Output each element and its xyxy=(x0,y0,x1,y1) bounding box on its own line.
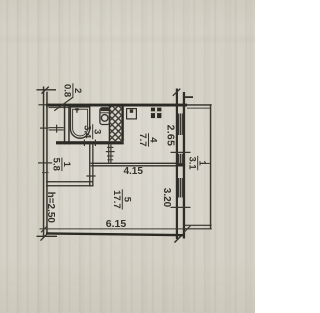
leader line for room 2 label xyxy=(54,97,73,110)
wall: bathroom south xyxy=(56,141,124,144)
svg-text:3.4: 3.4 xyxy=(81,125,92,139)
small tick on left wall lower xyxy=(42,172,49,174)
bottom-left corner tick xyxy=(37,233,58,241)
balcony bottom rails xyxy=(185,225,212,230)
balcony top edge xyxy=(187,104,212,109)
svg-text:7.7: 7.7 xyxy=(137,133,148,146)
kitchen sink xyxy=(127,109,137,119)
wall: hallway east (double line) xyxy=(89,144,93,187)
tick on left wall at closet bottom xyxy=(40,127,49,129)
balcony right edge xyxy=(210,104,212,229)
window hatch A (kitchen window) xyxy=(178,114,183,136)
wall: right exterior (double line with window openings) xyxy=(176,89,185,240)
wall: hallway south step (double line) xyxy=(46,181,93,186)
bathroom door jamb ticks xyxy=(84,140,95,146)
svg-text:4: 4 xyxy=(148,137,159,143)
wall: top exterior xyxy=(39,104,188,107)
wall: bottom exterior xyxy=(46,232,185,236)
closet doorway double dash xyxy=(49,125,64,133)
room label 5/17.7 xyxy=(111,189,132,209)
room label 4/7.7 xyxy=(137,133,158,146)
stove (4 burners) xyxy=(151,108,162,119)
ventilation shaft (cross-hatched) xyxy=(109,107,124,142)
svg-text:2: 2 xyxy=(72,88,83,93)
svg-text:3: 3 xyxy=(92,129,103,134)
dimension tick on right wall lower xyxy=(171,206,191,208)
window hatch C (room 5 window) xyxy=(178,178,183,198)
svg-text:0.8: 0.8 xyxy=(62,84,73,97)
hallway door jamb tick xyxy=(86,175,95,177)
svg-text:3.1: 3.1 xyxy=(186,156,197,170)
svg-text:5: 5 xyxy=(121,197,132,203)
top-left dimension tick xyxy=(37,87,57,94)
room label 2/0.8 xyxy=(62,83,83,98)
svg-text:17.7: 17.7 xyxy=(111,190,122,209)
svg-text:5.8: 5.8 xyxy=(51,158,62,171)
dimension tick on right wall upper xyxy=(171,151,191,153)
closet inner top line xyxy=(49,107,71,108)
bottom-right corner slash xyxy=(175,235,183,243)
svg-text:4.15: 4.15 xyxy=(123,166,143,177)
wall: room5 top (double line) xyxy=(91,163,176,167)
room label 3/3.4 xyxy=(81,124,102,139)
interior paper lightening xyxy=(48,107,176,234)
room label 1/5.8 xyxy=(51,158,72,171)
dimension line 6.15 xyxy=(40,226,191,233)
tick at balcony rail for label xyxy=(204,162,211,164)
svg-text:3.20: 3.20 xyxy=(161,188,172,208)
window hatch B xyxy=(178,154,183,163)
svg-text:h=2.50: h=2.50 xyxy=(45,192,56,224)
balcony label 1/3.1 xyxy=(186,156,207,171)
top-right extension cap xyxy=(173,89,193,98)
kitchen doorway ladder xyxy=(106,144,115,162)
dimension tick on left wall (hall/room5) xyxy=(38,162,52,164)
wall: bathroom west (double line) xyxy=(64,107,70,145)
bathtub xyxy=(70,107,89,138)
svg-text:6.15: 6.15 xyxy=(106,218,127,230)
svg-text:2.65: 2.65 xyxy=(165,125,177,147)
junction block: divider wall meets right wall xyxy=(176,163,185,166)
svg-text:1: 1 xyxy=(61,162,72,168)
wall: left exterior (double line) xyxy=(43,87,48,238)
washbasin xyxy=(100,108,110,125)
